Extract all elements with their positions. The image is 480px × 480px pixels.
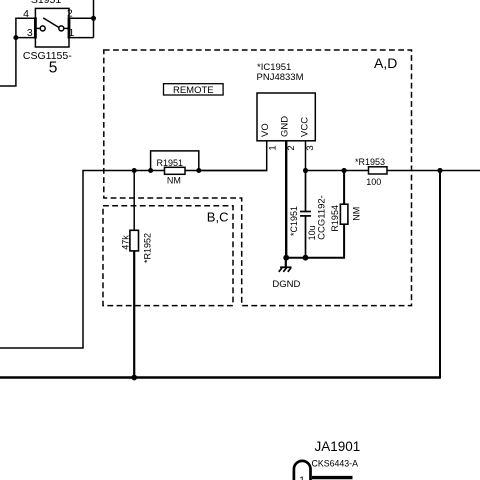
ground DGND stem <box>285 258 287 268</box>
svg-text:DGND: DGND <box>272 279 300 290</box>
svg-text:1: 1 <box>268 145 279 150</box>
wire left drop to edge <box>0 38 16 86</box>
wire R1954 upper <box>343 171 345 205</box>
wire bus riser right <box>439 171 441 379</box>
svg-text:VO: VO <box>260 123 271 137</box>
node dot R1954 branch <box>342 168 347 173</box>
resistor R1951 bypass loop <box>151 151 199 171</box>
wire pin4 stub <box>16 18 36 37</box>
node dot bus top <box>437 168 442 173</box>
svg-text:REMOTE: REMOTE <box>173 85 214 96</box>
svg-text:A,D: A,D <box>374 55 397 71</box>
svg-text:1: 1 <box>299 476 305 480</box>
node dot pins 3-4 <box>13 35 18 40</box>
node dot R1952 branch <box>132 168 137 173</box>
ground DGND tick 2 <box>283 268 286 272</box>
wire pin2 stub <box>69 17 94 19</box>
svg-text:JA1901: JA1901 <box>315 439 361 454</box>
op-amp U1: IC1951 body <box>257 93 315 141</box>
resistor R1952 body <box>130 230 139 251</box>
switch contact circle right <box>59 26 64 31</box>
svg-text:CSG1155-: CSG1155- <box>23 50 72 62</box>
dashed block outline A,D <box>104 50 412 306</box>
capacitor C1951 plate top <box>300 211 311 213</box>
wire R1952 upper <box>133 171 135 231</box>
svg-text:R1954: R1954 <box>330 205 340 232</box>
resistor R1951 body <box>165 167 186 174</box>
resistor R1953 body <box>369 167 388 174</box>
node dot cap bottom <box>303 255 309 261</box>
switch right pin bracket <box>68 17 71 38</box>
wire R1953 right to edge <box>387 170 480 172</box>
svg-text:47k: 47k <box>121 235 131 250</box>
svg-text:100: 100 <box>366 177 381 187</box>
node dot VCC <box>303 168 308 173</box>
wire main node horizontal <box>0 171 267 349</box>
ground DGND tick 3 <box>288 268 291 272</box>
svg-text:CKS6443-A: CKS6443-A <box>312 458 359 468</box>
wire R1954 lower <box>306 224 345 258</box>
REMOTE box <box>164 84 224 95</box>
wire pin1 stub <box>69 37 94 39</box>
switch left contact stub <box>35 27 40 29</box>
svg-text:*R1953: *R1953 <box>355 157 385 167</box>
ground DGND tick 1 <box>279 268 282 272</box>
svg-text:GND: GND <box>280 116 291 137</box>
switch right contact stub <box>64 27 69 29</box>
wire pin3 VCC down <box>305 141 307 171</box>
svg-text:S1951: S1951 <box>31 0 62 6</box>
svg-text:CCG1192-: CCG1192- <box>316 195 327 240</box>
capacitor C1951 plate bottom <box>300 215 311 217</box>
svg-text:5: 5 <box>49 60 58 77</box>
svg-text:R1951: R1951 <box>157 158 184 168</box>
svg-text:*R1952: *R1952 <box>142 233 152 263</box>
wire pin3 stub <box>16 37 36 39</box>
switch left pin bracket <box>34 17 37 38</box>
svg-text:2: 2 <box>286 145 297 150</box>
wire bus bottom (thick) <box>0 376 440 378</box>
switch S1951 body <box>35 8 69 47</box>
svg-text:PNJ4833M: PNJ4833M <box>257 72 304 83</box>
svg-text:NM: NM <box>167 176 181 186</box>
node dot on bus <box>131 375 137 381</box>
node dot ground <box>283 255 289 261</box>
resistor R1954 body <box>340 204 348 224</box>
wire connector pin (thick) <box>312 476 353 479</box>
ground DGND bar <box>280 266 291 268</box>
wire right vertical to top edge <box>93 0 95 38</box>
svg-text:VCC: VCC <box>299 117 310 137</box>
switch contact circle left <box>40 26 45 31</box>
wire pin1 VO down-left <box>199 141 267 171</box>
connector JA1901 shell <box>294 461 311 480</box>
dashed block outline B,C <box>103 206 233 306</box>
node dot R1951 left <box>148 168 153 173</box>
svg-text:NM: NM <box>352 207 362 221</box>
node dot R1951 right <box>196 168 201 173</box>
svg-text:*C1951: *C1951 <box>289 206 299 236</box>
wire pin2 GND down (thick) <box>285 141 287 258</box>
capacitor C1951 lower wire <box>305 216 307 258</box>
svg-text:B,C: B,C <box>207 210 229 225</box>
svg-text:3: 3 <box>305 145 316 150</box>
wire ground node horizontal <box>286 257 305 259</box>
node dot pin2 <box>91 16 96 21</box>
capacitor C1951 upper wire <box>305 171 307 211</box>
switch lever <box>43 18 59 28</box>
wire R1952 lower (thick) <box>133 251 135 378</box>
wire VCC node to R1953 <box>306 170 369 172</box>
